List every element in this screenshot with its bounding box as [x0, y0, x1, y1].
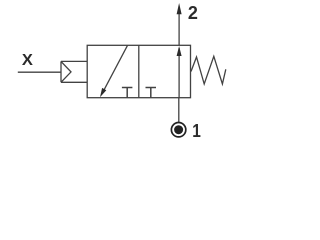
valve body V1 (two-position envelope) — [87, 45, 190, 97]
blocked port T (left box) — [122, 88, 132, 98]
wire port 1 — [178, 98, 180, 122]
port 1 pressure source circle — [171, 123, 185, 137]
wire port 2 — [178, 10, 180, 45]
flow path arrow (left box, actuated: 1 to 2) — [100, 45, 128, 97]
port 2 arrow — [177, 3, 182, 14]
wire pilot port X — [18, 71, 61, 73]
spring return — [191, 56, 226, 84]
blocked port T (right box) — [146, 88, 157, 98]
svg-text:X: X — [22, 52, 33, 69]
flow path arrow (right box, rest: 1 to 2) — [177, 46, 182, 98]
pilot actuator symbol (pneumatic pilot triangle) — [61, 61, 87, 82]
svg-text:1: 1 — [192, 121, 201, 141]
svg-text:2: 2 — [188, 3, 198, 23]
position divider — [138, 45, 140, 97]
